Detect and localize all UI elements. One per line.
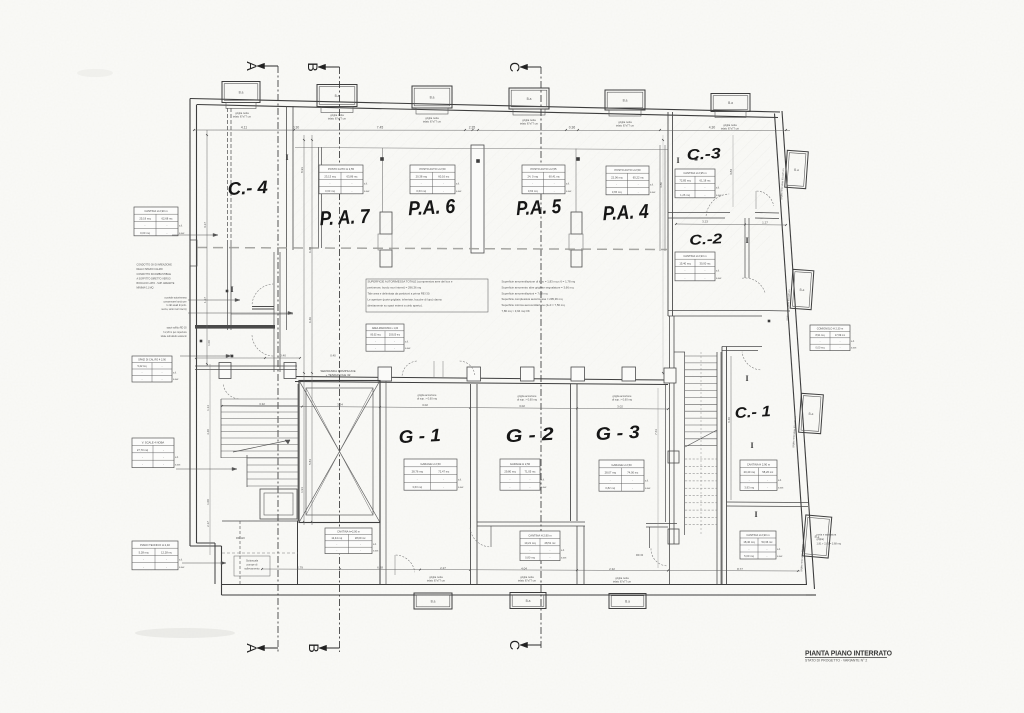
svg-text:griglia netta: griglia netta bbox=[235, 111, 249, 115]
svg-text:CANTINA H 2,90 m: CANTINA H 2,90 m bbox=[144, 209, 168, 213]
svg-text:-: - bbox=[421, 183, 422, 186]
svg-text:74,00 mc: 74,00 mc bbox=[627, 471, 639, 475]
svg-text:a.aer.: a.aer. bbox=[179, 566, 185, 569]
svg-text:-: - bbox=[142, 456, 143, 459]
svg-text:-: - bbox=[143, 559, 144, 562]
svg-text:a.il.: a.il. bbox=[373, 543, 377, 546]
svg-text:a.aer.: a.aer. bbox=[777, 555, 783, 558]
svg-text:I: I bbox=[230, 285, 233, 294]
svg-text:Superficie complessiva autorim: Superficie complessiva autorimessa = 295… bbox=[502, 297, 563, 301]
svg-text:20,40 mq: 20,40 mq bbox=[744, 470, 756, 474]
svg-text:a.aer.: a.aer. bbox=[458, 486, 464, 489]
svg-text:1.00: 1.00 bbox=[206, 499, 210, 505]
svg-text:B.a: B.a bbox=[623, 98, 628, 102]
svg-text:B.a: B.a bbox=[527, 97, 532, 101]
svg-text:0,82 mq: 0,82 mq bbox=[605, 486, 615, 490]
svg-text:Le aperture (porte grigliate,: Le aperture (porte grigliate, inferriate… bbox=[368, 298, 443, 302]
svg-text:CANTINA H 2,90 m: CANTINA H 2,90 m bbox=[528, 533, 552, 537]
svg-text:telaio 67x77 cm: telaio 67x77 cm bbox=[721, 126, 739, 130]
svg-text:-: - bbox=[167, 225, 168, 228]
svg-text:a.aer.: a.aer. bbox=[541, 486, 547, 489]
svg-text:B.a: B.a bbox=[431, 599, 436, 603]
svg-text:griglia): griglia) bbox=[817, 538, 825, 541]
svg-text:B.a: B.a bbox=[808, 412, 813, 416]
svg-text:a.aer.: a.aer. bbox=[645, 487, 651, 490]
svg-text:-: - bbox=[145, 225, 146, 228]
svg-text:-: - bbox=[610, 479, 611, 482]
svg-text:I: I bbox=[285, 153, 288, 162]
svg-text:28,07 mq: 28,07 mq bbox=[605, 471, 617, 475]
svg-text:a.aer.: a.aer. bbox=[561, 557, 567, 560]
svg-text:griglia netta: griglia netta bbox=[425, 116, 439, 120]
svg-text:a.aer.: a.aer. bbox=[173, 378, 179, 381]
svg-text:5,42 mq: 5,42 mq bbox=[137, 365, 147, 368]
svg-text:60,16 mc: 60,16 mc bbox=[438, 174, 450, 178]
svg-text:-: - bbox=[360, 550, 361, 553]
svg-text:a.aer.: a.aer. bbox=[456, 190, 462, 193]
svg-text:P.A. 4: P.A. 4 bbox=[602, 201, 649, 225]
svg-text:-: - bbox=[705, 270, 706, 273]
svg-text:71,05 mc: 71,05 mc bbox=[524, 470, 536, 474]
svg-text:-: - bbox=[443, 183, 444, 186]
svg-text:telaio 67x77 cm: telaio 67x77 cm bbox=[613, 579, 631, 583]
svg-text:0.36: 0.36 bbox=[569, 126, 576, 130]
svg-text:1.27: 1.27 bbox=[762, 220, 768, 224]
svg-text:telaio 67x77 cm: telaio 67x77 cm bbox=[328, 116, 346, 120]
svg-text:G - 1: G - 1 bbox=[398, 425, 441, 447]
svg-text:60,41 mc: 60,41 mc bbox=[549, 174, 561, 178]
svg-text:a.il.: a.il. bbox=[561, 549, 565, 552]
svg-text:B.a: B.a bbox=[794, 168, 799, 172]
svg-text:griglia netta: griglia netta bbox=[520, 575, 534, 579]
svg-text:-: - bbox=[336, 543, 337, 546]
svg-text:I: I bbox=[754, 510, 757, 519]
svg-text:0.30: 0.30 bbox=[293, 126, 300, 130]
svg-text:SPAZI DI CAL RO 4 2,90: SPAZI DI CAL RO 4 2,90 bbox=[138, 359, 166, 362]
svg-text:15,40 mq: 15,40 mq bbox=[679, 261, 691, 265]
svg-text:0,80 mq: 0,80 mq bbox=[525, 556, 535, 560]
svg-text:0,63 mq: 0,63 mq bbox=[528, 189, 538, 193]
svg-text:sollevamento: sollevamento bbox=[244, 567, 260, 571]
svg-text:a.il.: a.il. bbox=[716, 187, 720, 190]
svg-text:1.14: 1.14 bbox=[206, 405, 210, 411]
svg-text:30,00 mc: 30,00 mc bbox=[699, 261, 711, 265]
svg-text:-: - bbox=[767, 479, 768, 482]
svg-text:-: - bbox=[510, 478, 511, 481]
svg-text:-: - bbox=[510, 486, 511, 489]
svg-text:0.40: 0.40 bbox=[330, 354, 336, 358]
svg-text:18,40 mq: 18,40 mq bbox=[743, 540, 755, 544]
svg-text:a.il.: a.il. bbox=[777, 548, 781, 551]
svg-text:Superficie aeroventro altre gr: Superficie aeroventro altre grigliate se… bbox=[502, 285, 575, 289]
svg-text:B.a: B.a bbox=[239, 90, 244, 94]
svg-text:telaio 67x77 cm: telaio 67x77 cm bbox=[616, 123, 634, 127]
svg-text:di sup. > 0,60 mq: di sup. > 0,60 mq bbox=[517, 397, 538, 401]
svg-text:2.35: 2.35 bbox=[469, 126, 476, 130]
svg-text:-: - bbox=[767, 548, 768, 551]
svg-text:1.93: 1.93 bbox=[300, 487, 304, 493]
svg-text:-: - bbox=[767, 486, 768, 489]
svg-text:53,36 mc: 53,36 mc bbox=[761, 540, 773, 544]
svg-text:direttamente su spazi esterni: direttamente su spazi esterni a cielo ap… bbox=[368, 304, 423, 308]
svg-text:a.aer.: a.aer. bbox=[566, 190, 572, 193]
svg-text:-: - bbox=[767, 555, 768, 558]
svg-text:Tale area e delimitata da part: Tale area e delimitata da partizioni a p… bbox=[368, 292, 431, 296]
svg-text:3.17: 3.17 bbox=[203, 222, 207, 228]
svg-text:80,02 mq: 80,02 mq bbox=[371, 334, 382, 337]
svg-text:8.91: 8.91 bbox=[300, 167, 304, 173]
svg-text:CANTINA H 2,90 m: CANTINA H 2,90 m bbox=[747, 463, 771, 467]
svg-text:2.32: 2.32 bbox=[609, 567, 615, 571]
svg-text:Superficie aeroventilazioni =: Superficie aeroventilazioni = 7,68 mq bbox=[502, 291, 548, 295]
svg-text:I: I bbox=[750, 441, 753, 450]
svg-text:I: I bbox=[745, 236, 748, 245]
svg-text:-: - bbox=[705, 277, 706, 280]
svg-text:spazi soffitto RD 30: spazi soffitto RD 30 bbox=[167, 327, 188, 330]
svg-text:telaio 67x77 cm: telaio 67x77 cm bbox=[518, 578, 536, 582]
svg-text:compensare bordo per: compensare bordo per bbox=[163, 300, 186, 303]
svg-text:a.aer.: a.aer. bbox=[175, 464, 181, 467]
svg-text:29,80 mq: 29,80 mq bbox=[504, 470, 516, 474]
svg-text:-: - bbox=[163, 449, 164, 452]
svg-text:a.il.: a.il. bbox=[175, 456, 179, 459]
svg-text:CANTINA H 2,90 m: CANTINA H 2,90 m bbox=[746, 533, 770, 537]
svg-text:-: - bbox=[330, 183, 331, 186]
svg-text:B.a: B.a bbox=[526, 599, 531, 603]
svg-text:-: - bbox=[360, 543, 361, 546]
svg-text:Superficie minima aeroventilaz: Superficie minima aeroventilazione (2+0 … bbox=[502, 303, 566, 307]
svg-text:griglia netta: griglia netta bbox=[429, 575, 443, 579]
svg-text:62,68 mc: 62,68 mc bbox=[161, 216, 173, 220]
svg-text:P.A. 5: P.A. 5 bbox=[516, 196, 563, 220]
svg-text:BOCCA DI LUPO - SUP. AREANTE: BOCCA DI LUPO - SUP. AREANTE bbox=[137, 282, 175, 285]
svg-text:pertinenze, bordo muri interni: pertinenze, bordo muri interni) = 296,36… bbox=[368, 286, 422, 290]
svg-text:3,63 mq: 3,63 mq bbox=[412, 485, 422, 489]
svg-text:25,19 mq: 25,19 mq bbox=[139, 216, 151, 220]
svg-text:17,69 mc: 17,69 mc bbox=[835, 334, 846, 337]
svg-text:DELLO SPAZIO CALMO: DELLO SPAZIO CALMO bbox=[137, 268, 163, 271]
svg-text:P.A. 6: P.A. 6 bbox=[408, 196, 457, 220]
svg-text:-: - bbox=[143, 566, 144, 569]
svg-text:8,91 mq: 8,91 mq bbox=[815, 334, 825, 337]
svg-text:a.aer.: a.aer. bbox=[851, 347, 857, 350]
svg-text:12,28 mc: 12,28 mc bbox=[161, 550, 173, 554]
svg-text:Sottoscala: Sottoscala bbox=[246, 559, 259, 563]
svg-text:72,47 mc: 72,47 mc bbox=[438, 470, 450, 474]
svg-text:28,09 mc: 28,09 mc bbox=[355, 536, 366, 540]
svg-text:A SOFFITTO DIRETTO VERSO: A SOFFITTO DIRETTO VERSO bbox=[137, 277, 171, 280]
svg-text:B.a: B.a bbox=[335, 94, 340, 98]
svg-text:-: - bbox=[443, 478, 444, 481]
svg-text:0,63 mq: 0,63 mq bbox=[325, 189, 335, 193]
svg-text:STATO DI PROGETTO - VARIANTE N: STATO DI PROGETTO - VARIANTE N° 2 bbox=[805, 659, 867, 663]
svg-text:a.aer.: a.aer. bbox=[716, 194, 722, 197]
svg-text:-: - bbox=[685, 277, 686, 280]
svg-text:8.77: 8.77 bbox=[737, 567, 743, 571]
svg-text:POSTO AUTO H 2,50: POSTO AUTO H 2,50 bbox=[614, 168, 641, 172]
svg-text:-: - bbox=[632, 479, 633, 482]
svg-text:-: - bbox=[705, 187, 706, 190]
svg-text:a.il.: a.il. bbox=[541, 478, 545, 481]
svg-text:nenza, sotto muri interni): nenza, sotto muri interni) bbox=[161, 308, 187, 311]
svg-text:65,22 mc: 65,22 mc bbox=[633, 175, 645, 179]
svg-text:porta e aspiratura: porta e aspiratura bbox=[817, 534, 837, 537]
svg-text:-: - bbox=[685, 270, 686, 273]
svg-text:+ TENDASOLE 32: + TENDASOLE 32 bbox=[326, 373, 351, 377]
svg-text:a.il.: a.il. bbox=[716, 270, 720, 273]
svg-text:CANTINA H 2,95 m: CANTINA H 2,95 m bbox=[683, 171, 707, 175]
svg-text:a.il.: a.il. bbox=[179, 225, 183, 228]
svg-text:P. A. 7: P. A. 7 bbox=[319, 206, 371, 231]
svg-text:0.40: 0.40 bbox=[280, 354, 286, 358]
svg-text:0,00 mq: 0,00 mq bbox=[815, 347, 825, 350]
svg-text:-: - bbox=[554, 190, 555, 193]
svg-text:C.- 4: C.- 4 bbox=[227, 177, 268, 199]
svg-text:-: - bbox=[550, 549, 551, 552]
svg-text:griglia netta: griglia netta bbox=[615, 576, 629, 580]
svg-text:28,76 mq: 28,76 mq bbox=[412, 470, 424, 474]
svg-text:-: - bbox=[336, 550, 337, 553]
svg-text:-: - bbox=[166, 559, 167, 562]
svg-text:2.27: 2.27 bbox=[440, 566, 446, 570]
svg-text:-: - bbox=[530, 549, 531, 552]
svg-text:-: - bbox=[166, 566, 167, 569]
svg-text:telaio 67x77 cm: telaio 67x77 cm bbox=[427, 578, 445, 582]
svg-text:GARAGE H 2,50: GARAGE H 2,50 bbox=[420, 462, 441, 466]
svg-text:V. SCALE 4 NOBA: V. SCALE 4 NOBA bbox=[142, 440, 165, 444]
svg-text:6.46: 6.46 bbox=[308, 317, 312, 323]
svg-text:C.-3: C.-3 bbox=[686, 145, 722, 164]
svg-text:7.63: 7.63 bbox=[654, 429, 658, 435]
svg-text:20,38 mq: 20,38 mq bbox=[416, 174, 428, 178]
svg-text:10,21 mq: 10,21 mq bbox=[524, 541, 536, 545]
svg-text:-: - bbox=[638, 184, 639, 187]
svg-text:G - 3: G - 3 bbox=[595, 422, 640, 444]
svg-text:di sup. > 0,60 mq: di sup. > 0,60 mq bbox=[612, 397, 633, 401]
svg-text:B.a: B.a bbox=[799, 288, 804, 292]
svg-text:-: - bbox=[685, 187, 686, 190]
svg-text:SUPERFICIE AUTORIMESSA TOTALE: SUPERFICIE AUTORIMESSA TOTALE (comprensi… bbox=[368, 280, 453, 284]
svg-text:72,85 mq: 72,85 mq bbox=[679, 178, 691, 182]
svg-text:-: - bbox=[550, 557, 551, 560]
svg-text:6.28: 6.28 bbox=[377, 566, 383, 570]
svg-text:griglia accortone: griglia accortone bbox=[417, 393, 437, 397]
svg-text:B.a: B.a bbox=[625, 599, 630, 603]
svg-text:-: - bbox=[443, 486, 444, 489]
svg-text:a.il.: a.il. bbox=[405, 340, 409, 343]
svg-text:3,93 mq: 3,93 mq bbox=[744, 485, 754, 489]
svg-text:pompe di: pompe di bbox=[247, 563, 258, 567]
svg-text:3.83: 3.83 bbox=[729, 169, 733, 175]
svg-text:I: I bbox=[745, 374, 748, 383]
svg-text:-: - bbox=[616, 184, 617, 187]
svg-text:a.il.: a.il. bbox=[458, 478, 462, 481]
svg-text:CANTINA H 2,93 m: CANTINA H 2,93 m bbox=[683, 254, 707, 258]
svg-text:MINIMA 0,1 MQ: MINIMA 0,1 MQ bbox=[137, 287, 154, 290]
svg-text:-: - bbox=[638, 191, 639, 194]
svg-text:CONDOTTO GN DI AREAZIONE: CONDOTTO GN DI AREAZIONE bbox=[137, 264, 173, 267]
svg-text:-: - bbox=[530, 486, 531, 489]
svg-text:2.79: 2.79 bbox=[297, 565, 303, 569]
svg-text:0,63 mq: 0,63 mq bbox=[416, 189, 426, 193]
svg-text:3,65 mq: 3,65 mq bbox=[612, 190, 622, 194]
svg-text:4.80: 4.80 bbox=[659, 182, 663, 188]
svg-text:-: - bbox=[352, 190, 353, 193]
svg-text:a.aer.: a.aer. bbox=[778, 486, 784, 489]
svg-text:27,70 mq: 27,70 mq bbox=[137, 448, 149, 452]
svg-text:6.40: 6.40 bbox=[308, 247, 312, 253]
svg-text:0,00 mq: 0,00 mq bbox=[140, 231, 150, 235]
svg-text:C.- 1: C.- 1 bbox=[734, 403, 771, 422]
svg-text:-: - bbox=[749, 479, 750, 482]
svg-text:4.40: 4.40 bbox=[206, 429, 210, 435]
svg-text:-: - bbox=[632, 487, 633, 490]
svg-text:a.il.: a.il. bbox=[456, 183, 460, 186]
svg-text:-: - bbox=[167, 232, 168, 235]
svg-text:C.-2: C.-2 bbox=[689, 230, 723, 248]
svg-text:3.32: 3.32 bbox=[259, 402, 265, 406]
svg-text:griglia accortone: griglia accortone bbox=[612, 394, 632, 398]
svg-text:23,13 mq: 23,13 mq bbox=[324, 174, 336, 178]
svg-text:a portale autorimessa: a portale autorimessa bbox=[164, 297, 187, 300]
svg-text:I: I bbox=[676, 156, 679, 165]
svg-text:POSTO AUTO H 2,50: POSTO AUTO H 2,50 bbox=[419, 167, 446, 171]
svg-text:a.il.: a.il. bbox=[851, 340, 855, 343]
svg-text:a.il.: a.il. bbox=[173, 372, 177, 375]
svg-text:-: - bbox=[554, 183, 555, 186]
svg-text:griglia netta: griglia netta bbox=[522, 118, 536, 122]
svg-text:5,00 mq: 5,00 mq bbox=[744, 554, 754, 558]
svg-text:58,26 mc: 58,26 mc bbox=[762, 470, 774, 474]
svg-text:-: - bbox=[443, 190, 444, 193]
svg-text:RD 120: RD 120 bbox=[236, 536, 245, 540]
svg-text:a.aer.: a.aer. bbox=[364, 190, 370, 193]
svg-text:6.40: 6.40 bbox=[727, 417, 731, 423]
svg-text:a.aer.: a.aer. bbox=[650, 191, 656, 194]
svg-text:63,86 mc: 63,86 mc bbox=[346, 174, 358, 178]
svg-text:Superficie aeroventilazione di: Superficie aeroventilazione di lupo = 1,… bbox=[502, 280, 576, 284]
svg-text:griglia accortone: griglia accortone bbox=[517, 394, 537, 398]
svg-text:4.11: 4.11 bbox=[241, 126, 247, 130]
svg-text:5,28 mq: 5,28 mq bbox=[139, 550, 149, 554]
svg-text:RD 30: RD 30 bbox=[636, 554, 644, 557]
svg-text:PIANO TECNICO H 2,40: PIANO TECNICO H 2,40 bbox=[140, 543, 170, 547]
svg-text:a.aer.: a.aer. bbox=[179, 232, 185, 235]
svg-text:-: - bbox=[352, 183, 353, 186]
svg-text:-: - bbox=[142, 464, 143, 467]
svg-text:a.il.: a.il. bbox=[179, 559, 183, 562]
svg-text:GARAGE H 2,50: GARAGE H 2,50 bbox=[611, 463, 632, 467]
svg-text:1.00: 1.00 bbox=[207, 340, 211, 346]
svg-text:3.23: 3.23 bbox=[702, 220, 708, 224]
svg-text:3.34: 3.34 bbox=[337, 402, 343, 406]
svg-text:5.84: 5.84 bbox=[308, 459, 312, 465]
svg-text:-: - bbox=[705, 194, 706, 197]
svg-text:PIANTA PIANO INTERRATO: PIANTA PIANO INTERRATO bbox=[805, 651, 893, 658]
svg-text:28,51 mc: 28,51 mc bbox=[544, 541, 556, 545]
svg-text:griglia netta: griglia netta bbox=[330, 113, 344, 117]
svg-text:telaio 67x77 cm: telaio 67x77 cm bbox=[520, 121, 538, 125]
svg-text:a.aer.: a.aer. bbox=[373, 550, 379, 553]
svg-text:-: - bbox=[749, 548, 750, 551]
svg-text:a.il.: a.il. bbox=[645, 479, 649, 482]
svg-text:di sup. > 0,60 mq: di sup. > 0,60 mq bbox=[417, 396, 438, 400]
svg-text:telaio 67x77 cm: telaio 67x77 cm bbox=[233, 114, 251, 118]
svg-text:lo rEI areali di porti-: lo rEI areali di porti- bbox=[167, 304, 187, 307]
svg-text:CONDOTTO INCOMBUSTIBILE: CONDOTTO INCOMBUSTIBILE bbox=[137, 273, 172, 276]
svg-text:7.45: 7.45 bbox=[377, 126, 384, 130]
svg-text:a.il.: a.il. bbox=[650, 184, 654, 187]
svg-text:GARAGE H 2,50: GARAGE H 2,50 bbox=[510, 462, 531, 466]
svg-text:61,18 mc: 61,18 mc bbox=[699, 178, 711, 182]
svg-text:203,00 mc: 203,00 mc bbox=[389, 334, 401, 337]
svg-text:totale tetti alletto esistenti: totale tetti alletto esistenti bbox=[161, 335, 187, 338]
svg-text:-: - bbox=[417, 478, 418, 481]
svg-text:12,44 mq: 12,44 mq bbox=[331, 536, 342, 540]
svg-text:1,26 mq: 1,26 mq bbox=[680, 193, 690, 197]
svg-text:griglia netta: griglia netta bbox=[618, 120, 632, 124]
svg-text:a.il.: a.il. bbox=[778, 479, 782, 482]
svg-text:G - 2: G - 2 bbox=[505, 424, 554, 446]
svg-text:CANTINA h=2,00 m: CANTINA h=2,00 m bbox=[337, 529, 360, 533]
svg-text:B.a: B.a bbox=[728, 101, 733, 105]
svg-text:telaio 67x77 cm: telaio 67x77 cm bbox=[423, 119, 441, 123]
svg-text:POSTO AUTO H 2,55: POSTO AUTO H 2,55 bbox=[328, 167, 355, 171]
svg-text:3.02: 3.02 bbox=[519, 404, 525, 408]
svg-text:a.aer.: a.aer. bbox=[716, 277, 722, 280]
svg-text:22,06 mq: 22,06 mq bbox=[611, 175, 623, 179]
svg-text:h 2,20 m per copertura: h 2,20 m per copertura bbox=[163, 331, 187, 334]
svg-text:7,86 mq > 3,94 mq OK: 7,86 mq > 3,94 mq OK bbox=[502, 309, 530, 313]
svg-text:POSTO AUTO H 2,55: POSTO AUTO H 2,55 bbox=[530, 167, 557, 171]
svg-text:4.30: 4.30 bbox=[709, 126, 716, 130]
svg-text:2.17: 2.17 bbox=[206, 521, 210, 527]
svg-text:B.a: B.a bbox=[430, 95, 435, 99]
svg-text:1,81 + 2,83 = 3,68 mq: 1,81 + 2,83 = 3,68 mq bbox=[817, 542, 842, 545]
svg-text:-: - bbox=[532, 183, 533, 186]
svg-text:griglia netta: griglia netta bbox=[723, 123, 737, 127]
svg-text:4.04: 4.04 bbox=[521, 566, 527, 570]
svg-text:-: - bbox=[163, 456, 164, 459]
svg-text:a.il.: a.il. bbox=[364, 183, 368, 186]
svg-text:-: - bbox=[530, 478, 531, 481]
svg-text:COMIGNOLO H 2,30 m: COMIGNOLO H 2,30 m bbox=[817, 327, 843, 330]
svg-text:a.aer.: a.aer. bbox=[405, 347, 411, 350]
svg-text:-: - bbox=[163, 464, 164, 467]
svg-text:3.02: 3.02 bbox=[422, 403, 428, 407]
svg-text:24, 0 mq: 24, 0 mq bbox=[528, 174, 539, 178]
svg-text:AREA MANOVRA ≥ 1,00: AREA MANOVRA ≥ 1,00 bbox=[372, 327, 399, 330]
svg-text:3.02: 3.02 bbox=[617, 404, 623, 408]
svg-text:a.il.: a.il. bbox=[566, 183, 570, 186]
